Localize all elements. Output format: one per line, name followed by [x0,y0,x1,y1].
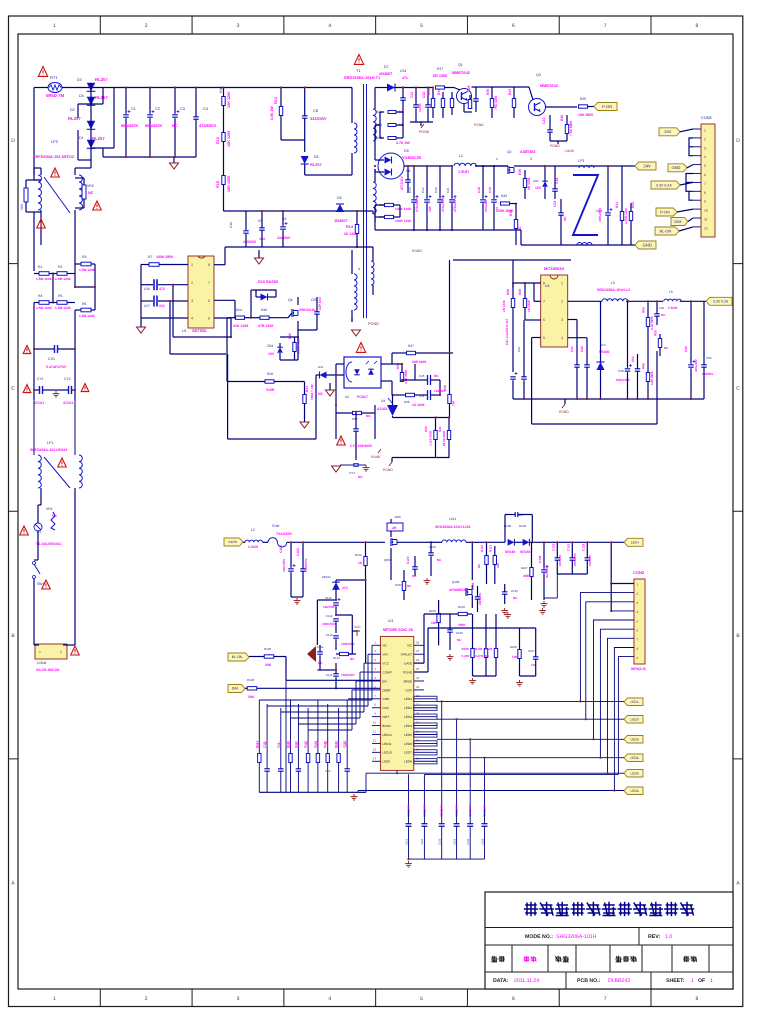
ground top mid [255,258,264,264]
svg-text:L1: L1 [459,154,463,158]
svg-text:C23: C23 [553,201,557,207]
dark red arrow [307,646,316,662]
svg-text:8: 8 [208,263,210,267]
wire bus under bridge [103,156,196,158]
resistor R41 [447,431,450,440]
svg-text:R29: R29 [236,308,242,312]
svg-text:104: 104 [428,206,432,212]
svg-text:SRG3206A-101H-L101: SRG3206A-101H-L101 [435,525,471,529]
svg-text:22P 1KV: 22P 1KV [318,296,322,310]
svg-text:NC: NC [318,661,323,665]
capacitor C23 [558,212,564,214]
svg-text:DLBB242: DLBB242 [608,978,630,984]
svg-text:104K/50V: 104K/50V [341,642,356,646]
svg-text:C124: C124 [453,838,456,845]
svg-text:NC: NC [513,596,518,600]
warning CY3 [337,436,346,445]
resistor R107 [530,568,533,577]
capacitor C113 [333,635,339,637]
svg-text:5: 5 [420,23,423,29]
resistor R7 [149,263,159,267]
svg-text:SRFD404A-151-NFD41: SRFD404A-151-NFD41 [30,448,68,452]
svg-text:2: 2 [145,996,148,1002]
U4 pin5 loop [532,337,541,339]
svg-text:471: 471 [402,76,408,80]
ground D11 [326,390,335,396]
ground under caps [173,157,175,163]
svg-text:C105: C105 [471,582,475,590]
capacitor C45 [688,364,694,366]
svg-text:C121: C121 [405,838,408,845]
svg-text:DATA:: DATA: [493,978,509,984]
zener ZD3 [277,347,283,353]
svg-text:D: D [736,138,740,144]
svg-text:470u/35V: 470u/35V [484,199,488,212]
svg-text:PGND: PGND [474,123,484,127]
warning CON4 [71,646,80,655]
svg-text:1: 1 [53,23,56,29]
svg-text:BL-ON: BL-ON [232,655,243,659]
svg-text:7: 7 [208,281,210,285]
cluster ladder rails [316,600,318,645]
output cap bank C16 C12 C20 C21 [411,199,417,201]
svg-text:1: 1 [710,978,713,984]
svg-text:L5: L5 [669,290,673,294]
ground CY4 right [365,465,367,468]
svg-text:R103: R103 [429,609,436,613]
svg-text:C115: C115 [326,673,333,677]
warning LF1 [58,458,67,467]
svg-text:3: 3 [704,146,706,150]
svg-text:3: 3 [237,996,240,1002]
svg-text:ZD3: ZD3 [267,344,273,348]
svg-text:5.6K 0805: 5.6K 0805 [650,371,654,385]
svg-text:3.3V 0.2A: 3.3V 0.2A [713,299,729,303]
svg-text:NC: NC [306,741,310,745]
IC3 box [380,636,413,770]
svg-text:VCC: VCC [354,625,361,629]
svg-text:R113: R113 [489,545,493,552]
svg-text:332/630V: 332/630V [310,116,327,121]
svg-text:56u/450V: 56u/450V [145,123,163,128]
resistors R112 R113 [485,556,488,565]
svg-text:R14: R14 [346,225,354,229]
svg-text:0R 1206: 0R 1206 [433,74,447,78]
svg-text:R35: R35 [288,333,292,339]
capacitor C106 [447,629,453,631]
svg-text:10: 10 [373,721,377,725]
svg-text:300R: 300R [523,574,531,578]
svg-text:7: 7 [604,23,607,29]
svg-text:C106: C106 [456,631,463,635]
svg-text:0.47uF/275V: 0.47uF/275V [46,365,67,369]
caps C18 C19 after L1 [480,199,486,201]
svg-text:C30: C30 [618,369,624,373]
diode D5 [301,156,309,164]
svg-text:LED+: LED+ [631,540,640,544]
warning triangle LF2 top [51,168,60,177]
svg-text:1.5M 1206: 1.5M 1206 [79,268,95,272]
svg-text:R48: R48 [506,289,510,295]
svg-text:C20: C20 [434,187,438,193]
svg-text:NC: NC [434,374,439,378]
svg-text:Q2: Q2 [507,150,512,154]
svg-text:100K 1206: 100K 1206 [395,219,411,223]
caps C120 C110 C118 [555,557,561,559]
bottom bus wire [424,773,618,775]
svg-text:U4: U4 [545,284,549,288]
left rails [33,212,35,271]
svg-text:12: 12 [373,738,377,742]
capacitor C105 [475,596,481,598]
svg-text:15V: 15V [535,186,542,190]
svg-text:1K 0805: 1K 0805 [412,403,425,407]
svg-text:3: 3 [530,157,532,161]
svg-text:24V: 24V [643,163,651,168]
svg-text:SHG3206A-101H: SHG3206A-101H [556,934,597,940]
svg-text:C52: C52 [631,356,635,362]
T1 core [363,84,365,318]
LED bus horizontals [437,700,624,702]
svg-text:R102: R102 [395,583,402,587]
svg-text:LED11: LED11 [382,742,392,746]
svg-text:75K 1206: 75K 1206 [494,96,498,110]
svg-text:CY1: CY1 [37,377,44,381]
svg-text:ZD1: ZD1 [533,179,539,183]
svg-text:C118: C118 [581,544,585,551]
resistor R102 [402,582,405,591]
svg-text:R5: R5 [58,294,62,298]
svg-text:C21: C21 [446,187,450,193]
svg-text:ZD101: ZD101 [322,575,331,579]
capacitor CY4 [353,463,359,465]
ground R31 [300,422,309,428]
bottom cap rail [409,858,485,860]
svg-text:2011.11.24: 2011.11.24 [514,978,539,984]
capacitor C102 [288,568,294,570]
svg-text:RL257: RL257 [68,116,81,121]
svg-text:R106: R106 [475,647,483,651]
resistor R101 [364,557,367,566]
svg-text:OF: OF [698,978,705,984]
T1 secondary mid [373,182,376,214]
net tag BL-ON con3 [655,227,679,235]
svg-text:PGND: PGND [550,144,560,148]
svg-text:1: 1 [39,650,41,654]
svg-text:100u/35V: 100u/35V [598,207,602,222]
svg-text:1: 1 [561,282,563,286]
capacitor C116 [333,602,339,604]
svg-text:C: C [736,385,740,391]
svg-text:NC: NC [563,216,567,221]
svg-text:100K: 100K [458,623,466,627]
svg-text:A08T462: A08T462 [520,150,536,154]
U4 pin2 out wire [568,300,602,302]
svg-text:LED3-: LED3- [630,737,639,741]
resistor R36 [406,393,415,396]
svg-text:+24VB: +24VB [227,540,237,544]
svg-text:L3: L3 [611,281,615,285]
U1 pin6 wire [214,299,235,301]
svg-text:R40: R40 [443,385,447,391]
svg-text:D9: D9 [404,149,409,153]
svg-text:3: 3 [237,23,240,29]
capacitor C53 [701,364,707,366]
ground C104 [426,578,428,581]
snubber join wire [281,139,305,141]
svg-text:15V: 15V [268,352,275,356]
svg-text:3: 3 [561,318,563,322]
svg-text:1.5M 1206: 1.5M 1206 [36,277,52,281]
svg-text:R28: R28 [267,372,273,376]
svg-text:C45: C45 [684,346,688,352]
svg-text:471/1KV: 471/1KV [400,176,404,190]
resistor R30b [523,179,526,188]
svg-text:6.8K 2W: 6.8K 2W [270,106,274,120]
svg-text:GND: GND [671,165,680,170]
svg-text:620u/16V: 620u/16V [616,378,631,382]
warning triangle near RT1 [38,67,47,77]
resistor R13 snubber [279,107,282,116]
svg-text:NC: NC [350,657,355,661]
svg-text:C19: C19 [488,187,492,193]
svg-text:GND: GND [382,697,390,701]
svg-text:10K 0805: 10K 0805 [578,113,593,117]
net tag BL-ON led [228,653,249,661]
svg-text:NC: NC [366,414,371,418]
svg-text:CON2: CON2 [633,570,645,575]
svg-text:D101: D101 [519,524,527,528]
warning CX1 [23,346,31,354]
svg-text:9: 9 [704,200,706,204]
ground C108 [543,601,545,604]
svg-text:ISET: ISET [382,715,389,719]
svg-text:C113: C113 [326,633,333,637]
U1 pin8 wire up [214,264,225,266]
svg-text:220u/35V: 220u/35V [282,558,286,572]
resistors R23 R22 [620,212,623,221]
svg-text:D7: D7 [384,65,389,69]
svg-text:R37: R37 [408,344,414,348]
svg-text:11: 11 [373,730,376,734]
svg-text:R124: R124 [333,656,340,660]
svg-text:C32: C32 [422,91,426,98]
TL431 net wires [393,417,450,419]
svg-text:NC: NC [408,644,413,648]
svg-text:1.5UH: 1.5UH [248,545,258,549]
Q1 emitter net [464,111,472,113]
con3 bridge wires [689,138,693,156]
svg-text:NC: NC [88,191,94,195]
svg-text:AP4435GM: AP4435GM [449,588,467,592]
svg-text:T1: T1 [356,69,360,73]
svg-text:NC: NC [382,644,387,648]
U4 feed wire top [453,259,571,261]
svg-text:C2: C2 [155,107,160,111]
svg-text:2: 2 [191,281,193,285]
svg-text:5: 5 [543,336,545,340]
svg-text:2: 2 [145,23,148,29]
svg-text:RT1: RT1 [50,75,58,80]
svg-text:R32: R32 [352,417,358,421]
svg-text:C120: C120 [551,543,555,551]
svg-text:Q4: Q4 [288,298,293,302]
T1 aux winding [371,261,374,285]
svg-text:R7: R7 [148,255,152,259]
svg-text:COMP: COMP [382,670,391,674]
svg-text:1N4007: 1N4007 [379,72,392,76]
svg-text:PGND: PGND [412,249,422,253]
svg-text:0R82 T 2W: 0R82 T 2W [310,384,314,400]
svg-text:3.9K 0805: 3.9K 0805 [404,370,408,384]
svg-text:SA-2S-456-G8: SA-2S-456-G8 [36,668,59,672]
svg-text:Q102: Q102 [452,580,460,584]
resistor R40 [448,395,451,404]
svg-text:2: 2 [704,137,706,141]
svg-text:NC: NC [325,741,329,745]
MOSFET Q001 [390,538,392,546]
svg-text:3: 3 [637,601,639,605]
svg-text:PGND: PGND [371,455,381,459]
svg-text:NC: NC [457,638,462,642]
wire left AC rail [33,88,35,176]
ground CY4 left [332,466,341,472]
capacitor C25 [427,375,429,385]
resistor R49 [523,299,526,308]
resistor R2 [57,272,67,276]
svg-text:100R/50V: 100R/50V [304,557,308,572]
resistor R3 [81,262,91,266]
svg-text:LED1-: LED1- [630,700,639,704]
svg-text:R6: R6 [82,302,86,306]
svg-text:GND: GND [642,242,651,247]
LF1 core diagonal [44,457,70,488]
net tag 3.3V out [706,297,732,305]
svg-text:PGND: PGND [419,130,430,134]
svg-text:22u/50V: 22u/50V [277,236,291,240]
svg-text:7: 7 [637,638,639,642]
U1 pin3 net down [169,301,171,354]
svg-text:LF2: LF2 [51,139,59,144]
resistors R15 R16 [385,203,394,206]
svg-text:VFAULT: VFAULT [401,653,413,657]
svg-text:470u/35V: 470u/35V [415,197,419,212]
svg-text:1: 1 [53,996,56,1002]
svg-text:8: 8 [704,191,706,195]
svg-text:1.5M 1206: 1.5M 1206 [36,306,52,310]
svg-text:100/50V: 100/50V [588,555,592,566]
resistor Rq3a [490,99,493,108]
CON2 pin drops [580,593,634,702]
svg-text:R12: R12 [216,137,220,144]
svg-text:10K: 10K [512,655,519,659]
svg-text:1.5M 1206: 1.5M 1206 [79,314,95,318]
svg-text:C112: C112 [326,614,333,618]
svg-text:LED8: LED8 [404,760,412,764]
net tag GND mid [635,241,656,249]
svg-text:3.3V 0.2A: 3.3V 0.2A [656,183,672,187]
svg-text:0.47R: 0.47R [475,654,484,658]
svg-text:BL-ON: BL-ON [660,229,672,233]
svg-text:104: 104 [278,741,282,746]
svg-text:100K 1206: 100K 1206 [395,207,411,211]
svg-text:26: 26 [416,658,420,662]
svg-text:2R 1206: 2R 1206 [502,300,506,312]
svg-text:1.5M 1206: 1.5M 1206 [55,277,71,281]
svg-text:NC: NC [437,558,442,562]
capacitor C56 [521,376,527,378]
rc row bottom rail [259,791,366,793]
capacitor C112 [333,618,339,620]
X capacitor CX1 [54,345,56,353]
svg-text:F100: F100 [272,524,279,528]
svg-text:0R 1206: 0R 1206 [527,177,531,190]
svg-text:90R 0805: 90R 0805 [412,360,426,364]
svg-text:6: 6 [704,173,706,177]
resistor R35 sense [293,343,296,352]
svg-text:NC: NC [318,392,324,396]
svg-text:L2: L2 [251,528,255,532]
svg-text:R56: R56 [424,426,428,432]
svg-text:24V: 24V [664,129,671,134]
svg-text:P-ON: P-ON [602,104,612,109]
svg-text:C47 2.2u/50 6.3x7: C47 2.2u/50 6.3x7 [505,318,509,345]
capacitor C119 [412,566,418,568]
svg-text:R59: R59 [654,330,658,336]
svg-text:J100: J100 [394,515,401,519]
svg-text:4: 4 [328,996,331,1002]
svg-text:LED4: LED4 [404,724,412,728]
capacitor C26 [153,279,155,290]
svg-text:C12: C12 [421,187,425,193]
svg-text:CY4: CY4 [349,471,355,475]
warning opto [356,343,365,353]
svg-text:VCC: VCC [325,769,331,773]
net tag DIM con3 [671,218,688,226]
svg-text:C107: C107 [528,649,535,653]
net tag 24V mid [635,162,656,170]
svg-text:BOSC: BOSC [382,724,392,728]
caps C41 C40 u4 [574,364,580,366]
svg-text:C122: C122 [421,838,424,845]
svg-text:0.47R: 0.47R [462,654,471,658]
svg-text:LF1: LF1 [47,441,53,445]
svg-text:LF3: LF3 [578,159,584,163]
svg-text:6: 6 [543,318,545,322]
resistor R37 [407,351,416,354]
resistor R56b [434,431,437,440]
svg-text:510R: 510R [266,388,275,392]
svg-text:1: 1 [704,129,706,133]
svg-text:2: 2 [637,592,639,596]
svg-text:C104: C104 [429,545,436,549]
resistor Rq3b [512,99,515,108]
net tag 24V con3 [659,128,680,136]
svg-text:VR2: VR2 [20,204,24,210]
svg-text:C8: C8 [313,109,318,113]
svg-text:U3: U3 [381,399,385,403]
svg-text:D6: D6 [337,196,342,200]
svg-text:D4: D4 [79,94,84,98]
svg-text:8: 8 [637,647,639,651]
svg-text:MC34063A: MC34063A [544,266,564,271]
svg-text:C119: C119 [406,556,410,564]
resistor R122 [264,655,274,658]
PGND U4 [562,404,565,408]
svg-text:C27: C27 [144,304,150,308]
capacitor C103 [300,568,306,570]
BL-ON route [285,657,287,681]
